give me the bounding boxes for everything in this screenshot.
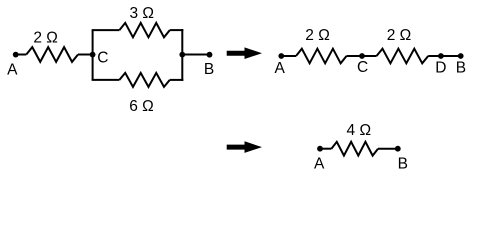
svg-text:C: C [357,59,368,76]
svg-text:B: B [398,156,408,173]
svg-text:A: A [314,155,325,172]
svg-text:3 Ω: 3 Ω [129,5,154,22]
svg-text:C: C [97,49,108,66]
svg-text:B: B [204,61,214,78]
svg-text:A: A [275,60,286,77]
svg-text:2 Ω: 2 Ω [387,27,412,44]
svg-text:4 Ω: 4 Ω [347,122,372,139]
svg-text:D: D [435,59,446,76]
svg-text:2 Ω: 2 Ω [305,27,330,44]
svg-text:B: B [456,60,466,77]
svg-text:6 Ω: 6 Ω [129,98,154,115]
svg-text:A: A [7,62,18,79]
svg-text:2 Ω: 2 Ω [33,30,58,47]
